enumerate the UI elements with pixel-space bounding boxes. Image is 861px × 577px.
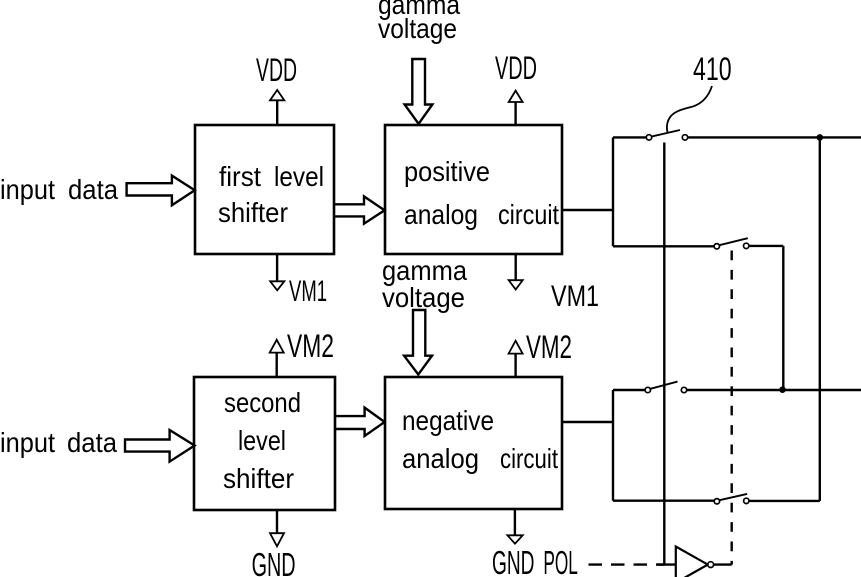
VM2 terminal above U3	[270, 340, 284, 377]
wire inverter input stub	[657, 563, 676, 565]
svg-text:GND: GND	[492, 544, 535, 577]
svg-text:level: level	[274, 161, 324, 192]
box U2 positive analog circuit	[385, 125, 562, 254]
GND POL terminal below U4	[507, 509, 522, 544]
arrow gamma voltage into U2	[405, 59, 433, 124]
svg-text:VM2: VM2	[526, 329, 572, 365]
svg-text:second: second	[224, 387, 301, 418]
VM2 terminal above U4	[509, 341, 523, 377]
svg-text:circuit: circuit	[500, 443, 558, 474]
wire to SW4	[613, 500, 714, 502]
box U3 second level shifter	[194, 377, 335, 510]
switch SW2	[714, 238, 749, 249]
svg-text:first: first	[219, 161, 261, 192]
wire to SW3	[613, 389, 645, 391]
svg-text:VDD: VDD	[495, 50, 537, 86]
svg-text:analog: analog	[404, 199, 478, 230]
wire vertical split negative	[612, 390, 614, 501]
svg-text:410: 410	[693, 51, 732, 87]
svg-text:data: data	[68, 174, 118, 205]
box U4 negative analog circuit	[385, 377, 562, 509]
wire elbow down to node B	[782, 246, 784, 390]
switch SW4	[714, 494, 749, 504]
wire to SW2	[613, 245, 714, 247]
leader from 410 to SW1	[667, 86, 712, 133]
svg-text:VDD: VDD	[256, 52, 297, 88]
svg-text:shifter: shifter	[218, 197, 288, 228]
svg-text:VM1: VM1	[551, 280, 599, 313]
arrow gamma voltage into U4	[404, 310, 432, 375]
svg-text:POL: POL	[543, 544, 578, 577]
wire SW2 to elbow	[749, 245, 783, 247]
svg-text:negative: negative	[402, 405, 494, 436]
svg-text:analog: analog	[402, 443, 479, 474]
svg-text:input: input	[0, 427, 55, 458]
wire POL control line (solid, SW1 and SW3)	[663, 143, 665, 565]
wire SW4 to right riser	[749, 500, 820, 502]
switch SW3	[645, 382, 687, 393]
wire GND POL dashed to inverter input	[589, 563, 665, 565]
svg-text:input: input	[0, 174, 55, 205]
wire vertical split positive	[612, 137, 614, 246]
GND terminal below U3	[270, 510, 284, 546]
node B junction dot	[779, 386, 786, 393]
arrow U1 to U2	[334, 196, 385, 223]
switch SW1	[646, 130, 687, 140]
node A junction dot	[817, 134, 824, 141]
svg-text:circuit: circuit	[498, 199, 559, 230]
wire U4 output	[562, 421, 613, 423]
svg-text:voltage: voltage	[382, 282, 465, 313]
wire SW3 to node B and out	[687, 389, 861, 391]
box U1 first level shifter	[195, 125, 334, 254]
svg-text:VM1: VM1	[289, 275, 327, 308]
svg-text:voltage: voltage	[378, 13, 457, 44]
svg-text:positive: positive	[404, 156, 490, 187]
inverter U5	[676, 547, 714, 577]
wire U2 output	[562, 209, 613, 211]
svg-text:VM2: VM2	[287, 328, 334, 364]
wire POLB control line (dashed, SW2 and SW4)	[731, 251, 733, 565]
arrow input data into U1	[127, 176, 195, 206]
wire inverter output stub	[714, 563, 732, 565]
VDD terminal above U2	[509, 91, 523, 125]
wire riser node A down to SW4	[819, 137, 821, 501]
svg-text:shifter: shifter	[223, 463, 294, 494]
svg-text:GND: GND	[252, 546, 296, 577]
VDD terminal above U1	[270, 90, 284, 125]
wire SW1 to node A	[688, 136, 861, 138]
wire to SW1	[613, 136, 646, 138]
arrow U3 to U4	[335, 408, 385, 436]
arrow input data into U3	[125, 430, 195, 462]
svg-text:level: level	[238, 425, 286, 456]
VM1 terminal below U2	[509, 254, 523, 290]
svg-text:data: data	[67, 427, 117, 458]
VM1 terminal below U1	[270, 254, 284, 290]
